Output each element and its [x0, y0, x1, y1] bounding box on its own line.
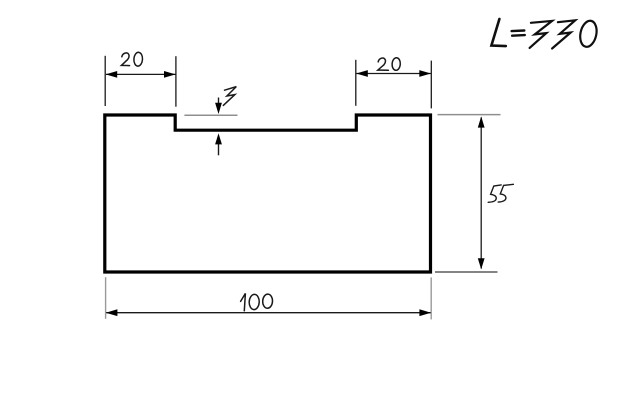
arrowhead left of dim 100 — [106, 309, 118, 316]
extension line left of dim 20 (right) — [355, 60, 357, 106]
annotation L=330, letter L — [491, 19, 505, 46]
extension line right of dim 20 (left) — [175, 56, 177, 106]
dimension line 20 (left) — [106, 73, 176, 75]
extension line bottom of dim 55 — [435, 271, 498, 273]
arrowhead right of dim 100 — [419, 309, 431, 316]
dim 3 upper arrowhead pointing down — [215, 103, 222, 114]
extension line right (grey) of dim 100 — [430, 277, 432, 319]
value label 100, second digit 0 — [262, 294, 273, 309]
value label 100, first digit 0 — [249, 294, 260, 310]
value label 100, digit 1 — [241, 293, 246, 310]
arrowhead right of dim 20 (right) — [419, 70, 431, 77]
value label 20 (right), digit 2 — [378, 58, 389, 70]
annotation L=330, digit 0 — [578, 19, 599, 48]
extension line right of dim 20 (right) — [430, 61, 432, 109]
arrowhead left of dim 20 (right) — [356, 70, 368, 77]
dim 3 upper leader line — [218, 98, 220, 108]
extension line left of dim 20 (left) — [104, 56, 106, 106]
dim 3 lower leader line — [218, 144, 220, 156]
part outline (rectangle 100x55 with top notch) — [105, 115, 431, 272]
arrowhead top of dim 55 pointing up — [478, 116, 485, 127]
annotation L=330, equals sign — [512, 31, 525, 36]
value label 20 (left), digit 0 — [133, 52, 143, 66]
arrowhead right of dim 20 (left) — [164, 71, 176, 78]
dim 3 lower arrowhead pointing up — [215, 133, 222, 144]
value label 55, second digit 5 — [498, 184, 513, 202]
dimension line 100 — [106, 312, 430, 314]
annotation L=330, second digit 3 — [552, 20, 575, 48]
value label 3 (handwritten zigzag) — [223, 87, 236, 106]
arrowhead bottom of dim 55 pointing down — [478, 258, 485, 269]
value label 55, first digit 5 — [488, 185, 501, 202]
arrowhead left of dim 20 (left) — [106, 71, 118, 78]
extension line (grey) top of dim 55 — [438, 114, 501, 116]
dimension line 55 (vertical) — [480, 118, 482, 269]
extension line left (grey) of dim 100 — [105, 277, 107, 319]
dimension line 20 (right) — [356, 73, 430, 75]
annotation L=330, first digit 3 — [530, 21, 553, 48]
extension line (grey) for dim 3 at top surface level — [184, 114, 237, 116]
value label 20 (right), digit 0 — [392, 57, 401, 70]
value label 20 (left), digit 2 — [121, 53, 129, 66]
